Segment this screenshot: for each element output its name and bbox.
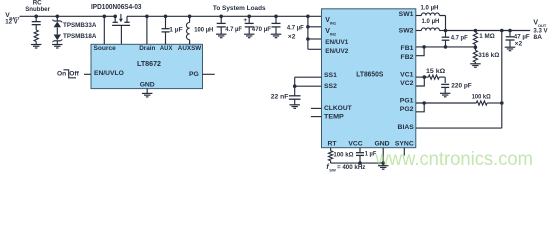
- svg-text:To System Loads: To System Loads: [213, 5, 266, 12]
- svg-text:22 nF: 22 nF: [271, 94, 289, 101]
- svg-text:1.0 µH: 1.0 µH: [422, 18, 440, 25]
- svg-text:100 kΩ: 100 kΩ: [472, 94, 492, 101]
- svg-text:TPSMB18A: TPSMB18A: [63, 33, 97, 40]
- svg-text:PG: PG: [189, 71, 199, 78]
- svg-text:TPSMB33A: TPSMB33A: [63, 22, 97, 29]
- svg-text:GND: GND: [374, 140, 389, 147]
- svg-text:SW: SW: [329, 167, 336, 172]
- svg-text:Drain: Drain: [139, 45, 155, 52]
- svg-text:PG1: PG1: [400, 97, 414, 104]
- svg-text:×2: ×2: [515, 41, 523, 48]
- svg-text:FB2: FB2: [401, 54, 414, 61]
- svg-text:Off: Off: [69, 70, 79, 77]
- svg-text:SS2: SS2: [324, 83, 337, 90]
- svg-text:470 µF: 470 µF: [252, 26, 271, 33]
- svg-text:TEMP: TEMP: [324, 114, 344, 121]
- svg-text:LT8672: LT8672: [137, 61, 161, 68]
- svg-text:On: On: [57, 70, 66, 77]
- svg-text:AUX: AUX: [160, 45, 173, 52]
- svg-text:GND: GND: [140, 81, 155, 88]
- svg-text:SW1: SW1: [399, 11, 414, 18]
- svg-text:VC1: VC1: [400, 71, 413, 78]
- svg-text:SS1: SS1: [324, 72, 337, 79]
- svg-text:PG2: PG2: [400, 106, 414, 113]
- svg-text:220 pF: 220 pF: [451, 83, 471, 90]
- svg-text:FB1: FB1: [401, 45, 414, 52]
- svg-text:IN2: IN2: [330, 32, 337, 37]
- svg-text:VC2: VC2: [400, 80, 413, 87]
- svg-text:4.7 pF: 4.7 pF: [451, 34, 468, 41]
- svg-text:Snubber: Snubber: [25, 6, 50, 13]
- svg-text:BIAS: BIAS: [398, 124, 415, 131]
- svg-text:100 µH: 100 µH: [194, 27, 213, 34]
- svg-text:IN1: IN1: [330, 21, 337, 26]
- svg-text:1 µF: 1 µF: [169, 27, 182, 34]
- svg-text:47 µF: 47 µF: [514, 33, 530, 40]
- svg-text:1 MΩ: 1 MΩ: [479, 33, 495, 40]
- svg-text:Source: Source: [94, 45, 117, 52]
- svg-text:EN/UV1: EN/UV1: [325, 39, 348, 46]
- svg-text:www.cntronics.com: www.cntronics.com: [375, 149, 533, 170]
- svg-text:SYNC: SYNC: [395, 140, 414, 147]
- svg-text:×2: ×2: [288, 33, 296, 40]
- svg-text:= 400 kHz: = 400 kHz: [337, 164, 366, 171]
- svg-text:SW2: SW2: [399, 28, 414, 35]
- svg-text:316 kΩ: 316 kΩ: [478, 52, 500, 59]
- svg-text:4.7 µF: 4.7 µF: [287, 25, 304, 32]
- svg-text:AUXSW: AUXSW: [178, 45, 202, 52]
- svg-text:+: +: [243, 17, 247, 24]
- svg-text:12 V: 12 V: [5, 18, 18, 25]
- svg-text:EN/UVLO: EN/UVLO: [94, 70, 124, 77]
- svg-text:EN/UV2: EN/UV2: [325, 48, 348, 55]
- svg-text:CLKOUT: CLKOUT: [324, 105, 353, 112]
- svg-text:8A: 8A: [533, 34, 542, 41]
- svg-text:4.7 µF: 4.7 µF: [225, 26, 242, 33]
- svg-text:LT8650S: LT8650S: [356, 72, 383, 79]
- svg-text:100 kΩ: 100 kΩ: [333, 152, 354, 159]
- svg-text:1.0 µH: 1.0 µH: [421, 5, 439, 12]
- svg-text:RT: RT: [328, 140, 338, 147]
- svg-text:IPD100N06S4-03: IPD100N06S4-03: [91, 4, 142, 11]
- svg-text:VCC: VCC: [348, 140, 362, 147]
- svg-text:15 kΩ: 15 kΩ: [426, 68, 446, 75]
